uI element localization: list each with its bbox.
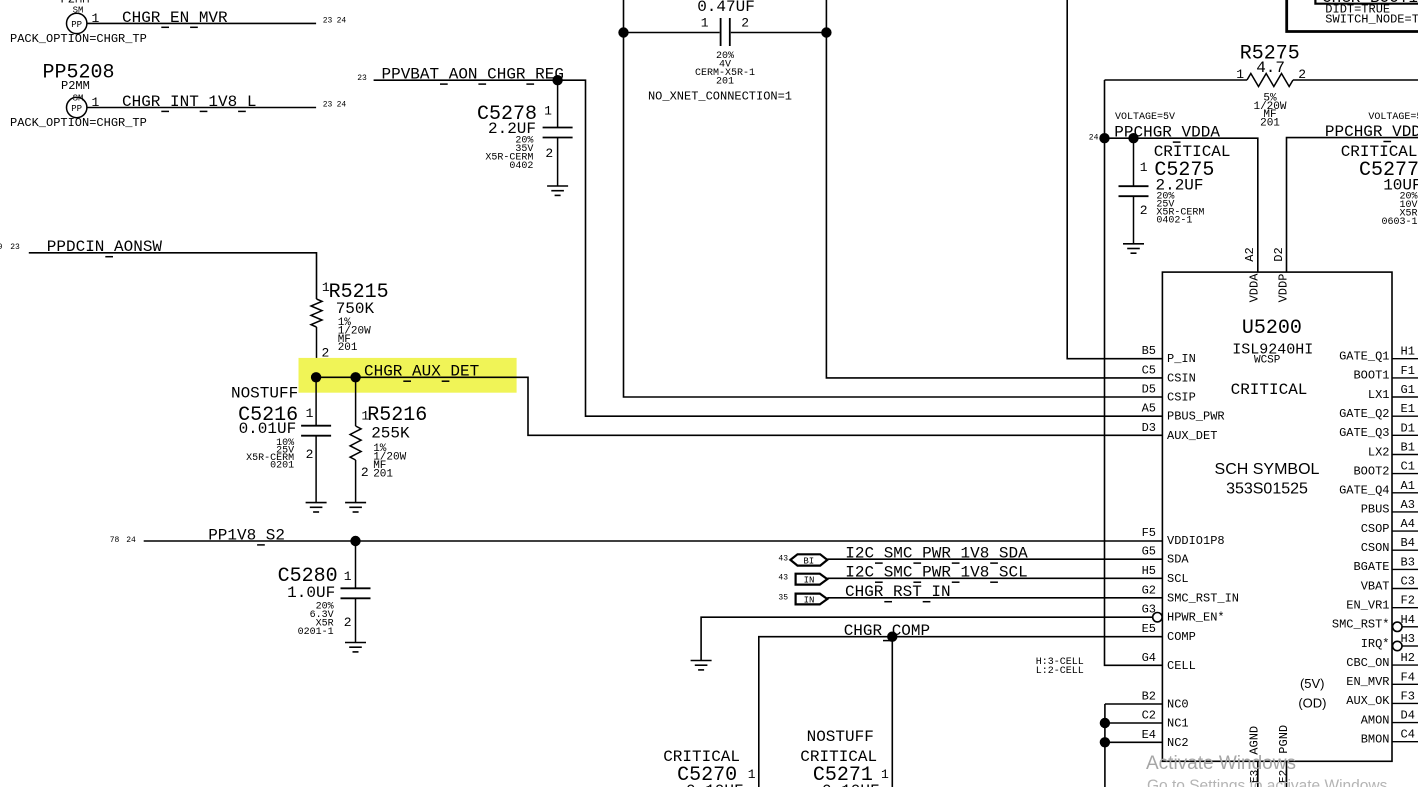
svg-text:0.10UF: 0.10UF: [686, 782, 744, 787]
svg-text:0201: 0201: [270, 461, 294, 472]
svg-text:EN_MVR: EN_MVR: [1346, 675, 1389, 689]
svg-text:1: 1: [544, 104, 552, 119]
svg-text:F3: F3: [1401, 689, 1415, 703]
wire AGND stub: [1257, 761, 1259, 787]
svg-text:GATE_Q2: GATE_Q2: [1339, 407, 1389, 421]
svg-text:750K: 750K: [336, 300, 375, 318]
wire C5271 down: [891, 637, 893, 787]
svg-text:CRITICAL: CRITICAL: [1231, 381, 1308, 399]
svg-text:H3: H3: [1401, 632, 1415, 646]
svg-text:NC2: NC2: [1167, 736, 1189, 750]
svg-text:BOOT1: BOOT1: [1353, 369, 1389, 383]
svg-text:(5V): (5V): [1300, 676, 1325, 691]
svg-text:43: 43: [778, 555, 788, 564]
svg-text:PBUS_PWR: PBUS_PWR: [1167, 410, 1225, 424]
junction R5216 tap: [350, 372, 360, 382]
svg-text:E4: E4: [1142, 728, 1156, 742]
svg-text:AGND: AGND: [1247, 726, 1261, 755]
svg-text:CHGR INT 1V8 L: CHGR INT 1V8 L: [122, 93, 256, 111]
svg-text:VDDP: VDDP: [1276, 274, 1290, 303]
svg-text:A2: A2: [1243, 247, 1257, 261]
svg-text:1.0UF: 1.0UF: [287, 584, 335, 602]
svg-text:24: 24: [1089, 134, 1099, 143]
ground C5280: [345, 642, 366, 644]
svg-text:GATE_Q3: GATE_Q3: [1339, 426, 1389, 440]
svg-text:GATE_Q1: GATE_Q1: [1339, 350, 1389, 364]
svg-text:SWITCH_NODE=TRUE: SWITCH_NODE=TRUE: [1325, 13, 1418, 27]
svg-text:PACK_OPTION=CHGR_TP: PACK_OPTION=CHGR_TP: [10, 116, 147, 130]
ground C5275: [1123, 243, 1144, 245]
wire R5215 to CHGR_AUX_DET: [316, 327, 318, 377]
svg-text:C2: C2: [1142, 709, 1156, 723]
svg-text:U5200: U5200: [1242, 317, 1302, 340]
svg-text:CHGR AUX DET: CHGR AUX DET: [364, 363, 479, 381]
svg-text:G1: G1: [1401, 383, 1415, 397]
svg-text:0201-1: 0201-1: [298, 627, 334, 638]
svg-text:D2: D2: [1272, 247, 1286, 261]
svg-text:9: 9: [0, 243, 3, 252]
svg-text:2: 2: [1140, 203, 1148, 218]
svg-text:IRQ*: IRQ*: [1361, 637, 1390, 651]
svg-text:EN_VR1: EN_VR1: [1346, 599, 1389, 613]
junction C5271 tap: [887, 632, 897, 642]
junction NC2: [1100, 737, 1110, 747]
wire net CHGR_EN_MVR: [87, 22, 316, 24]
svg-text:AUX_DET: AUX_DET: [1167, 429, 1217, 443]
svg-text:CHGR EN MVR: CHGR EN MVR: [122, 9, 228, 27]
svg-text:BGATE: BGATE: [1353, 560, 1389, 574]
svg-text:43: 43: [778, 574, 788, 583]
svg-text:Go to Settings to activate Win: Go to Settings to activate Windows: [1147, 778, 1388, 787]
wire net CHGR_AUX_DET: [316, 377, 1162, 435]
svg-text:IN: IN: [804, 595, 815, 605]
svg-text:201: 201: [1260, 118, 1280, 130]
svg-text:PP: PP: [71, 20, 82, 30]
svg-text:VDDA: VDDA: [1248, 273, 1262, 303]
svg-text:G2: G2: [1142, 583, 1156, 597]
svg-text:78: 78: [110, 536, 120, 545]
ground C5216: [306, 502, 327, 504]
svg-text:F4: F4: [1401, 670, 1415, 684]
svg-text:201: 201: [716, 77, 734, 88]
svg-text:C3: C3: [1401, 575, 1415, 589]
junction NC1: [1100, 718, 1110, 728]
svg-text:VDDIO1P8: VDDIO1P8: [1167, 534, 1225, 548]
svg-text:VBAT: VBAT: [1361, 579, 1390, 593]
ground HPWR_EN*: [691, 660, 712, 662]
svg-text:2: 2: [361, 465, 369, 480]
svg-text:NC1: NC1: [1167, 717, 1189, 731]
svg-text:1: 1: [748, 767, 756, 782]
svg-text:B4: B4: [1401, 536, 1415, 550]
junction R5215/C5216: [311, 372, 321, 382]
svg-text:2: 2: [306, 447, 314, 462]
resistor R5216: [355, 377, 357, 426]
svg-text:24: 24: [337, 101, 347, 110]
svg-text:A4: A4: [1401, 517, 1415, 531]
svg-text:C1: C1: [1401, 460, 1415, 474]
svg-text:CSOP: CSOP: [1361, 522, 1390, 536]
svg-text:NOSTUFF: NOSTUFF: [807, 728, 874, 746]
svg-text:0.47UF: 0.47UF: [697, 0, 755, 16]
wire net CHGR_RST_IN: [827, 597, 1162, 599]
junction C5278 tap: [552, 75, 562, 85]
svg-text:CELL: CELL: [1167, 659, 1196, 673]
svg-text:35: 35: [778, 594, 788, 603]
svg-text:VOLTAGE=5V: VOLTAGE=5V: [1115, 112, 1175, 123]
svg-text:WCSP: WCSP: [1254, 355, 1281, 367]
property box DIDT / SWITCH_NODE (clipped top right): [1287, 0, 1418, 32]
svg-text:BMON: BMON: [1361, 733, 1390, 747]
wire PGND stub: [1286, 761, 1288, 787]
svg-text:BOOT2: BOOT2: [1353, 464, 1389, 478]
svg-text:H2: H2: [1401, 651, 1415, 665]
svg-text:2: 2: [344, 615, 352, 630]
svg-text:C4: C4: [1401, 728, 1415, 742]
wire P_IN vertical from top: [1067, 0, 1162, 359]
svg-text:AUX_OK: AUX_OK: [1346, 694, 1390, 708]
svg-text:24: 24: [126, 536, 136, 545]
svg-text:NC0: NC0: [1167, 698, 1189, 712]
wire net I2C_SMC_PWR_1V8_SCL: [827, 577, 1162, 579]
svg-text:CSIN: CSIN: [1167, 371, 1196, 385]
svg-text:NO_XNET_CONNECTION=1: NO_XNET_CONNECTION=1: [648, 90, 792, 104]
svg-text:SCH SYMBOL: SCH SYMBOL: [1215, 461, 1320, 478]
svg-text:PBUS: PBUS: [1361, 503, 1390, 517]
svg-text:F1: F1: [1401, 364, 1415, 378]
svg-text:F5: F5: [1142, 526, 1156, 540]
wire CSIN vertical (right leg of 0.47UF): [825, 0, 827, 33]
svg-text:0603-1: 0603-1: [1381, 217, 1417, 228]
svg-text:24: 24: [337, 16, 347, 25]
svg-text:1: 1: [344, 569, 352, 584]
svg-text:E5: E5: [1142, 622, 1156, 636]
wire NC bus: [1105, 703, 1163, 705]
svg-text:I2C SMC PWR 1V8 SCL: I2C SMC PWR 1V8 SCL: [845, 564, 1027, 582]
svg-text:IN: IN: [804, 575, 815, 585]
svg-text:0.01UF: 0.01UF: [239, 420, 297, 438]
svg-text:0402-1: 0402-1: [1156, 216, 1192, 227]
svg-text:H4: H4: [1401, 613, 1415, 627]
svg-text:255K: 255K: [371, 425, 410, 443]
svg-text:SCL: SCL: [1167, 572, 1189, 586]
svg-text:CSON: CSON: [1361, 541, 1390, 555]
ground R5216: [345, 502, 366, 504]
svg-text:D5: D5: [1142, 383, 1156, 397]
svg-text:SMC_RST_IN: SMC_RST_IN: [1167, 591, 1239, 605]
svg-text:P_IN: P_IN: [1167, 352, 1196, 366]
svg-text:B5: B5: [1142, 344, 1156, 358]
resistor R5215: [311, 299, 322, 327]
svg-text:G5: G5: [1142, 545, 1156, 559]
junction C5275 tap: [1128, 133, 1138, 143]
svg-text:A3: A3: [1401, 498, 1415, 512]
svg-text:D3: D3: [1142, 421, 1156, 435]
svg-text:A1: A1: [1401, 479, 1415, 493]
svg-text:L:2-CELL: L:2-CELL: [1036, 666, 1084, 677]
svg-text:LX2: LX2: [1368, 445, 1390, 459]
svg-text:23: 23: [10, 243, 20, 252]
svg-text:F2: F2: [1401, 594, 1415, 608]
svg-text:G4: G4: [1142, 651, 1156, 665]
svg-text:B1: B1: [1401, 441, 1415, 455]
junction 0.47UF pin2: [821, 27, 831, 37]
svg-text:201: 201: [338, 342, 358, 354]
svg-text:P2MM: P2MM: [61, 79, 90, 93]
svg-text:D1: D1: [1401, 421, 1415, 435]
wire CSIP vertical (left leg of 0.47UF): [623, 0, 625, 33]
svg-text:201: 201: [373, 468, 393, 480]
svg-text:COMP: COMP: [1167, 630, 1196, 644]
svg-text:CBC_ON: CBC_ON: [1346, 656, 1389, 670]
junction C5280 tap: [350, 536, 360, 546]
svg-text:AMON: AMON: [1361, 713, 1390, 727]
svg-text:E1: E1: [1401, 402, 1415, 416]
svg-text:LX1: LX1: [1368, 388, 1390, 402]
svg-text:VOLTAGE=5V: VOLTAGE=5V: [1368, 112, 1418, 123]
svg-text:23: 23: [323, 101, 333, 110]
svg-text:0402: 0402: [509, 161, 533, 172]
svg-text:GATE_Q4: GATE_Q4: [1339, 484, 1389, 498]
net box CHGR_BOOT1 (clipped): [1315, 0, 1418, 4]
svg-text:B2: B2: [1142, 690, 1156, 704]
svg-text:SDA: SDA: [1167, 553, 1189, 567]
svg-text:0.10UF: 0.10UF: [822, 782, 880, 787]
wire HPWR_EN* to ground: [701, 617, 1153, 660]
svg-text:B3: B3: [1401, 555, 1415, 569]
svg-text:CSIP: CSIP: [1167, 391, 1196, 405]
op-amp U5200 body: [1162, 272, 1392, 761]
highlight CHGR_AUX_DET: [299, 358, 517, 393]
svg-text:H5: H5: [1142, 564, 1156, 578]
svg-text:1: 1: [306, 406, 314, 421]
svg-text:2: 2: [741, 16, 749, 31]
svg-text:H1: H1: [1401, 345, 1415, 359]
svg-text:PACK_OPTION=CHGR_TP: PACK_OPTION=CHGR_TP: [10, 32, 147, 46]
svg-text:A5: A5: [1142, 402, 1156, 416]
svg-text:NOSTUFF: NOSTUFF: [231, 385, 298, 403]
junction PPCHGR_VDDA bus: [1099, 133, 1109, 143]
junction 0.47UF pin1: [618, 27, 628, 37]
wire net CHGR_INT_1V8_L: [87, 107, 316, 109]
svg-text:C5: C5: [1142, 363, 1156, 377]
svg-text:D4: D4: [1401, 709, 1415, 723]
svg-text:BI: BI: [803, 556, 814, 566]
svg-text:Activate Windows: Activate Windows: [1146, 753, 1296, 774]
svg-text:1: 1: [701, 16, 709, 31]
svg-text:2: 2: [545, 146, 553, 161]
wire PPCHGR_VDDA bus vertical to CELL pin: [1105, 80, 1163, 665]
svg-text:I2C SMC PWR 1V8 SDA: I2C SMC PWR 1V8 SDA: [845, 545, 1028, 563]
ground C5278: [547, 185, 568, 187]
svg-text:(OD): (OD): [1298, 696, 1326, 711]
wire net I2C_SMC_PWR_1V8_SDA: [827, 558, 1162, 560]
svg-text:HPWR_EN*: HPWR_EN*: [1167, 611, 1225, 625]
svg-text:CHGR RST IN: CHGR RST IN: [845, 583, 951, 601]
svg-text:SMC_RST*: SMC_RST*: [1332, 618, 1390, 632]
svg-text:23: 23: [357, 74, 367, 83]
svg-text:1: 1: [881, 767, 889, 782]
svg-text:1: 1: [1140, 160, 1148, 175]
svg-text:23: 23: [323, 16, 333, 25]
svg-text:PGND: PGND: [1277, 725, 1291, 754]
svg-text:PP: PP: [71, 104, 82, 114]
svg-text:353S01525: 353S01525: [1226, 481, 1308, 498]
